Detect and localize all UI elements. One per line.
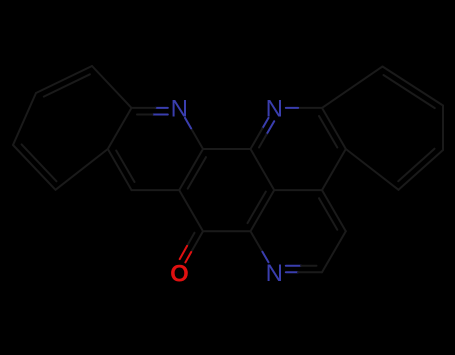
bond C-H [274,189,322,191]
svg-text:O: O [170,260,189,287]
bond C2=N1 double [132,108,168,115]
bond C=D double [248,190,275,231]
bond P-apexL [92,66,132,108]
bond A-N1 [185,118,203,149]
bond VR2=valR double [398,149,443,190]
bond J=I double [319,108,346,149]
bond valL-M [56,149,108,190]
bond Cx-G [322,231,346,272]
bond K-F [132,189,180,191]
svg-text:N: N [171,96,188,123]
bond apexL=VL double [36,66,92,97]
bond P-M [108,108,132,149]
bond H-J [322,149,346,190]
bond I-N2 [286,107,322,109]
bond F=A double [179,149,206,190]
bond valR-J [346,149,399,190]
bond G=H double [319,190,346,231]
bond VL2=valL double [13,144,57,189]
bond N3=Cx double [286,266,322,273]
bond D-N3 [251,231,269,262]
bond VR-VR2 [442,106,444,151]
bond VL-VL2 [13,93,36,145]
bond A-B [203,148,251,150]
bond M=K double [108,149,135,190]
svg-text:N: N [266,260,283,287]
svg-text:N: N [266,96,283,123]
bond apexR=VR double [383,67,444,109]
bond D-C9 [203,230,251,232]
bond C9=O double [180,231,203,262]
bond C9-F [179,190,203,231]
bond B-C [251,149,275,190]
bond I-apexR [322,67,383,108]
bond N2=B double [251,118,275,149]
